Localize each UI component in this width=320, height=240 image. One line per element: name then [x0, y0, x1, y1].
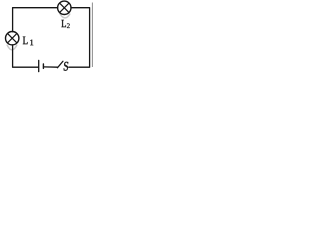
wire bottom-left: battery to lamp L1 — [13, 45, 39, 67]
scan ghost arc under lamp L1 — [7, 45, 17, 50]
scan edge line — [91, 3, 93, 68]
battery cell: long plate — [38, 60, 40, 71]
battery cell: short plate — [42, 64, 44, 68]
wire top-right and right side down to switch — [69, 8, 90, 67]
wire battery to switch — [44, 66, 58, 68]
lamp L2 — [58, 1, 71, 14]
label L1 — [23, 37, 28, 45]
scan ghost arc under lamp L2 — [60, 14, 70, 18]
lamp L1 — [6, 32, 19, 45]
label L2 — [61, 20, 65, 27]
wire top-left: from lamp L1 up and across to lamp L2 — [13, 8, 58, 32]
label S — [64, 62, 69, 71]
switch S blade — [57, 61, 63, 68]
